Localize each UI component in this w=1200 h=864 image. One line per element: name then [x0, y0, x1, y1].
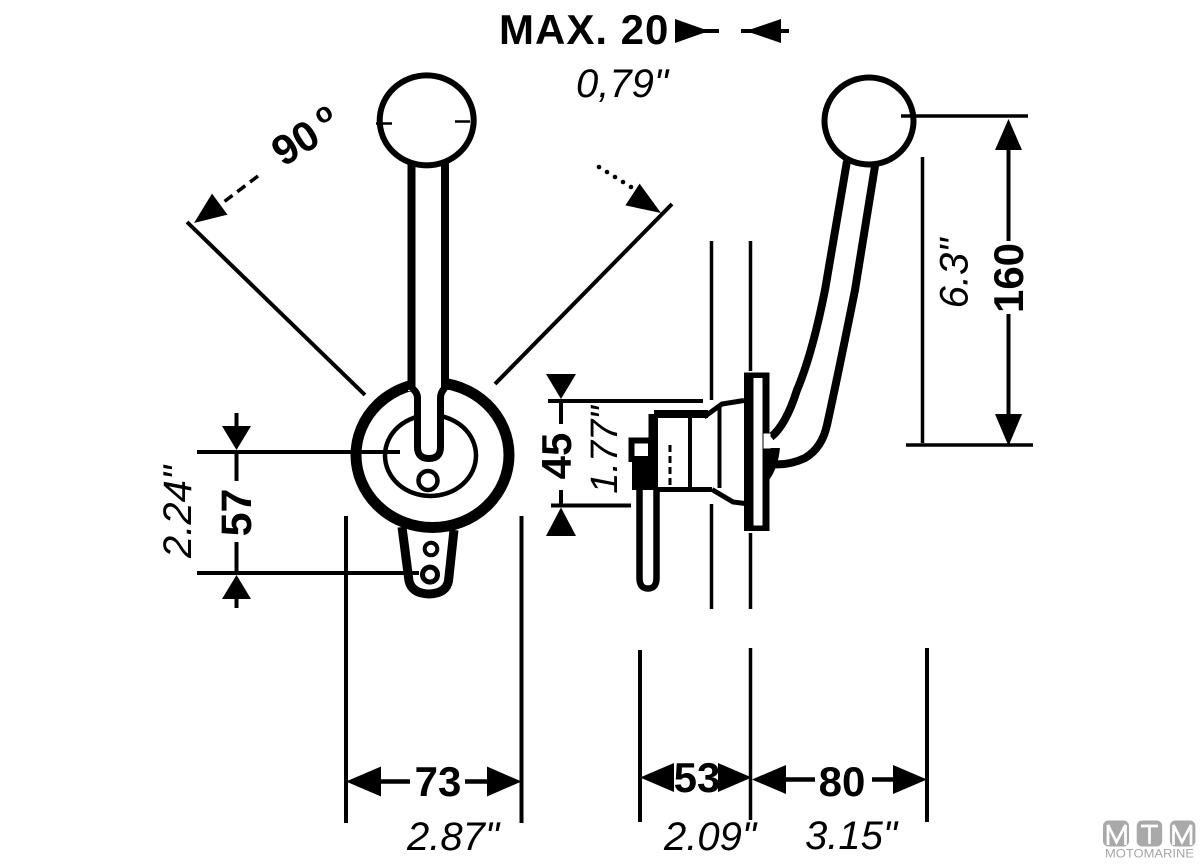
right swing diagonal line — [495, 204, 672, 384]
lever ball knob (front view) — [380, 75, 474, 165]
dotted leader from max20 — [597, 165, 641, 194]
tab hole upper — [425, 543, 438, 556]
panel extension line left — [710, 241, 714, 609]
MTM logo letter T — [1141, 826, 1158, 844]
body left column — [649, 414, 659, 491]
leader line from 90 label — [208, 176, 258, 214]
cable boss — [632, 441, 652, 460]
lever flange junction patch — [763, 448, 781, 481]
53 dim left extension line — [638, 650, 642, 822]
45 dim top arrow — [546, 374, 576, 399]
cone top edge — [704, 401, 744, 418]
MTM logo letter M2 — [1174, 825, 1192, 845]
53 dim line with arrows — [640, 763, 752, 792]
svg-text:3.15": 3.15" — [805, 814, 899, 858]
MTM logo square 2 — [1137, 821, 1163, 847]
57 dim bottom arrow — [222, 575, 251, 599]
45 dim upper extension line — [548, 399, 703, 403]
MTM logo square 1 — [1103, 821, 1129, 847]
MTM logo letter M1 — [1108, 825, 1126, 845]
160 dim top arrow — [995, 119, 1022, 150]
svg-text:2.09": 2.09" — [663, 815, 758, 859]
tab hole lower — [423, 567, 438, 582]
bracket blob — [632, 460, 657, 490]
panel extension line right — [749, 241, 753, 820]
svg-text:1.77": 1.77" — [584, 405, 626, 494]
mounting flange (side view) — [744, 373, 770, 532]
pivot hole — [419, 471, 438, 490]
svg-text:0,79": 0,79" — [576, 62, 670, 106]
control lever (side view) — [771, 161, 875, 464]
inner circle of control head — [385, 415, 476, 496]
lever end notch — [764, 434, 771, 449]
body surface line — [669, 445, 672, 490]
arrowhead of 90 leader — [194, 194, 228, 223]
arrowhead of dotted leader — [625, 184, 661, 213]
output lever arm (side view) — [640, 490, 657, 589]
svg-text:2.24": 2.24" — [156, 464, 200, 559]
80 dim line with arrows — [752, 765, 927, 794]
73 dim right extension line — [520, 516, 524, 823]
svg-text:53: 53 — [674, 754, 721, 801]
svg-text:80: 80 — [819, 758, 866, 805]
body rib — [688, 412, 692, 489]
ball center tick left — [376, 122, 392, 125]
body bottom edge — [654, 487, 712, 492]
body top edge — [654, 410, 708, 418]
arrow right (max20 left arrow) — [675, 19, 719, 43]
lever ball knob (side view) — [825, 78, 914, 165]
label 90 degrees — [263, 95, 338, 175]
svg-text:MOTOMARINE: MOTOMARINE — [1105, 847, 1194, 861]
svg-text:45: 45 — [533, 433, 580, 480]
57 dim lower extension line — [197, 571, 419, 575]
80 dim right extension line — [925, 648, 929, 822]
svg-text:6.3": 6.3" — [933, 237, 977, 309]
lever shaft (front view) — [408, 163, 448, 461]
57 dim upper extension line — [197, 450, 400, 454]
svg-text:MAX. 20: MAX. 20 — [499, 6, 669, 53]
45 dim bottom arrow — [546, 508, 576, 537]
left swing diagonal line — [187, 222, 365, 395]
73 dim left extension line — [344, 516, 348, 823]
svg-text:2.87": 2.87" — [406, 815, 501, 859]
160 dim bottom arrow — [995, 414, 1022, 446]
73 dim line with arrows — [346, 767, 522, 797]
tab bracket of control head — [402, 527, 454, 594]
57 dim top arrow — [222, 426, 251, 450]
160 dim vertical line — [1007, 128, 1011, 431]
cone bottom edge — [712, 490, 745, 504]
160 dim top extension line — [901, 114, 1028, 118]
ball edge extension line — [921, 157, 925, 443]
160 dim bottom extension line — [906, 443, 1033, 447]
outer circle of control head — [356, 383, 509, 528]
svg-text:73: 73 — [415, 758, 462, 805]
svg-text:57: 57 — [213, 489, 261, 537]
ball center tick right — [455, 120, 470, 123]
arrow left (max20 right arrow) — [741, 19, 789, 43]
45 dim lower extension line — [551, 504, 631, 508]
45 dim vertical line — [559, 401, 563, 506]
MTM logo square 3 — [1170, 821, 1196, 847]
body step edge — [718, 406, 722, 488]
57 dim vertical line — [235, 413, 239, 608]
svg-text:160: 160 — [985, 243, 1032, 313]
